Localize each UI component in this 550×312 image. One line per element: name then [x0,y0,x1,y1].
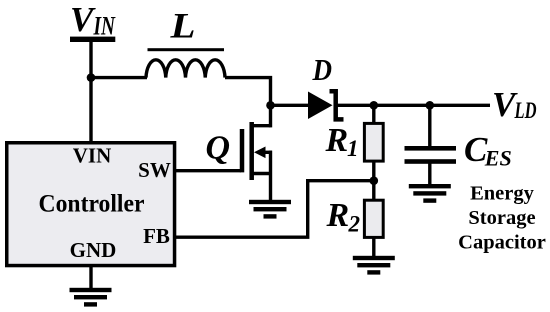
ground main [70,288,112,307]
wire diode to VLD [337,104,490,107]
wire R1 to node [372,161,375,182]
node CES top [426,101,435,110]
wire FB net [176,181,374,238]
svg-text:L: L [169,6,195,46]
svg-text:LD: LD [514,98,537,123]
node VIN junction [87,73,96,82]
wire drain [269,104,272,127]
svg-text:VIN: VIN [73,143,112,167]
capacitor CES [405,146,457,164]
label R2 [326,197,361,237]
label CES [464,130,512,170]
svg-text:1: 1 [347,136,359,161]
wire GND to ground [89,266,92,290]
transistor Q drain stub [253,124,271,127]
label VIN source [70,0,116,41]
wire inductor to corner [225,78,271,106]
wire CES to ground [428,162,431,186]
svg-text:ES: ES [484,145,512,170]
resistor R1 [364,123,383,161]
wire VIN vertical [89,40,92,143]
wire R2 to ground [372,236,375,258]
wire node to CES [428,105,431,147]
inductor L bar [148,48,225,51]
wire node to R2 [372,181,375,201]
svg-text:IN: IN [93,12,116,41]
ground Q [249,200,291,219]
transistor Q source stub [253,172,271,175]
wire source to ground [269,151,272,202]
svg-text:Controller: Controller [39,191,145,218]
transistor Q body arrow [262,151,272,154]
svg-text:V: V [70,0,96,39]
label VLD [492,85,537,124]
wire node to diode anode [271,104,310,107]
transistor Q channel bar [249,122,254,180]
ground R2 [353,256,395,275]
node drain junction [266,101,275,110]
inductor L [146,60,225,78]
svg-text:Q: Q [206,130,231,167]
svg-text:R: R [325,122,349,159]
wire node to R1 [372,105,375,124]
svg-text:Capacitor: Capacitor [458,231,546,253]
svg-text:Energy: Energy [470,183,535,205]
text Energy Storage Capacitor [458,183,546,254]
VIN terminal bar [70,37,115,42]
diode D triangle [308,92,333,120]
controller box [7,143,175,266]
svg-text:D: D [312,52,332,87]
svg-text:GND: GND [70,238,117,262]
svg-text:FB: FB [143,224,170,248]
svg-text:SW: SW [138,158,171,182]
svg-text:Storage: Storage [468,207,535,229]
svg-text:R: R [326,197,350,234]
label R1 [325,122,359,161]
transistor Q gate bar [240,129,245,172]
node R1 top [370,101,379,110]
ground CES [409,184,451,203]
node FB junction [370,176,379,185]
wire VIN to inductor [91,76,147,79]
resistor R2 [364,200,383,237]
diode D schottky cathode [330,91,344,119]
svg-text:2: 2 [348,212,361,237]
wire SW to gate [176,169,241,172]
